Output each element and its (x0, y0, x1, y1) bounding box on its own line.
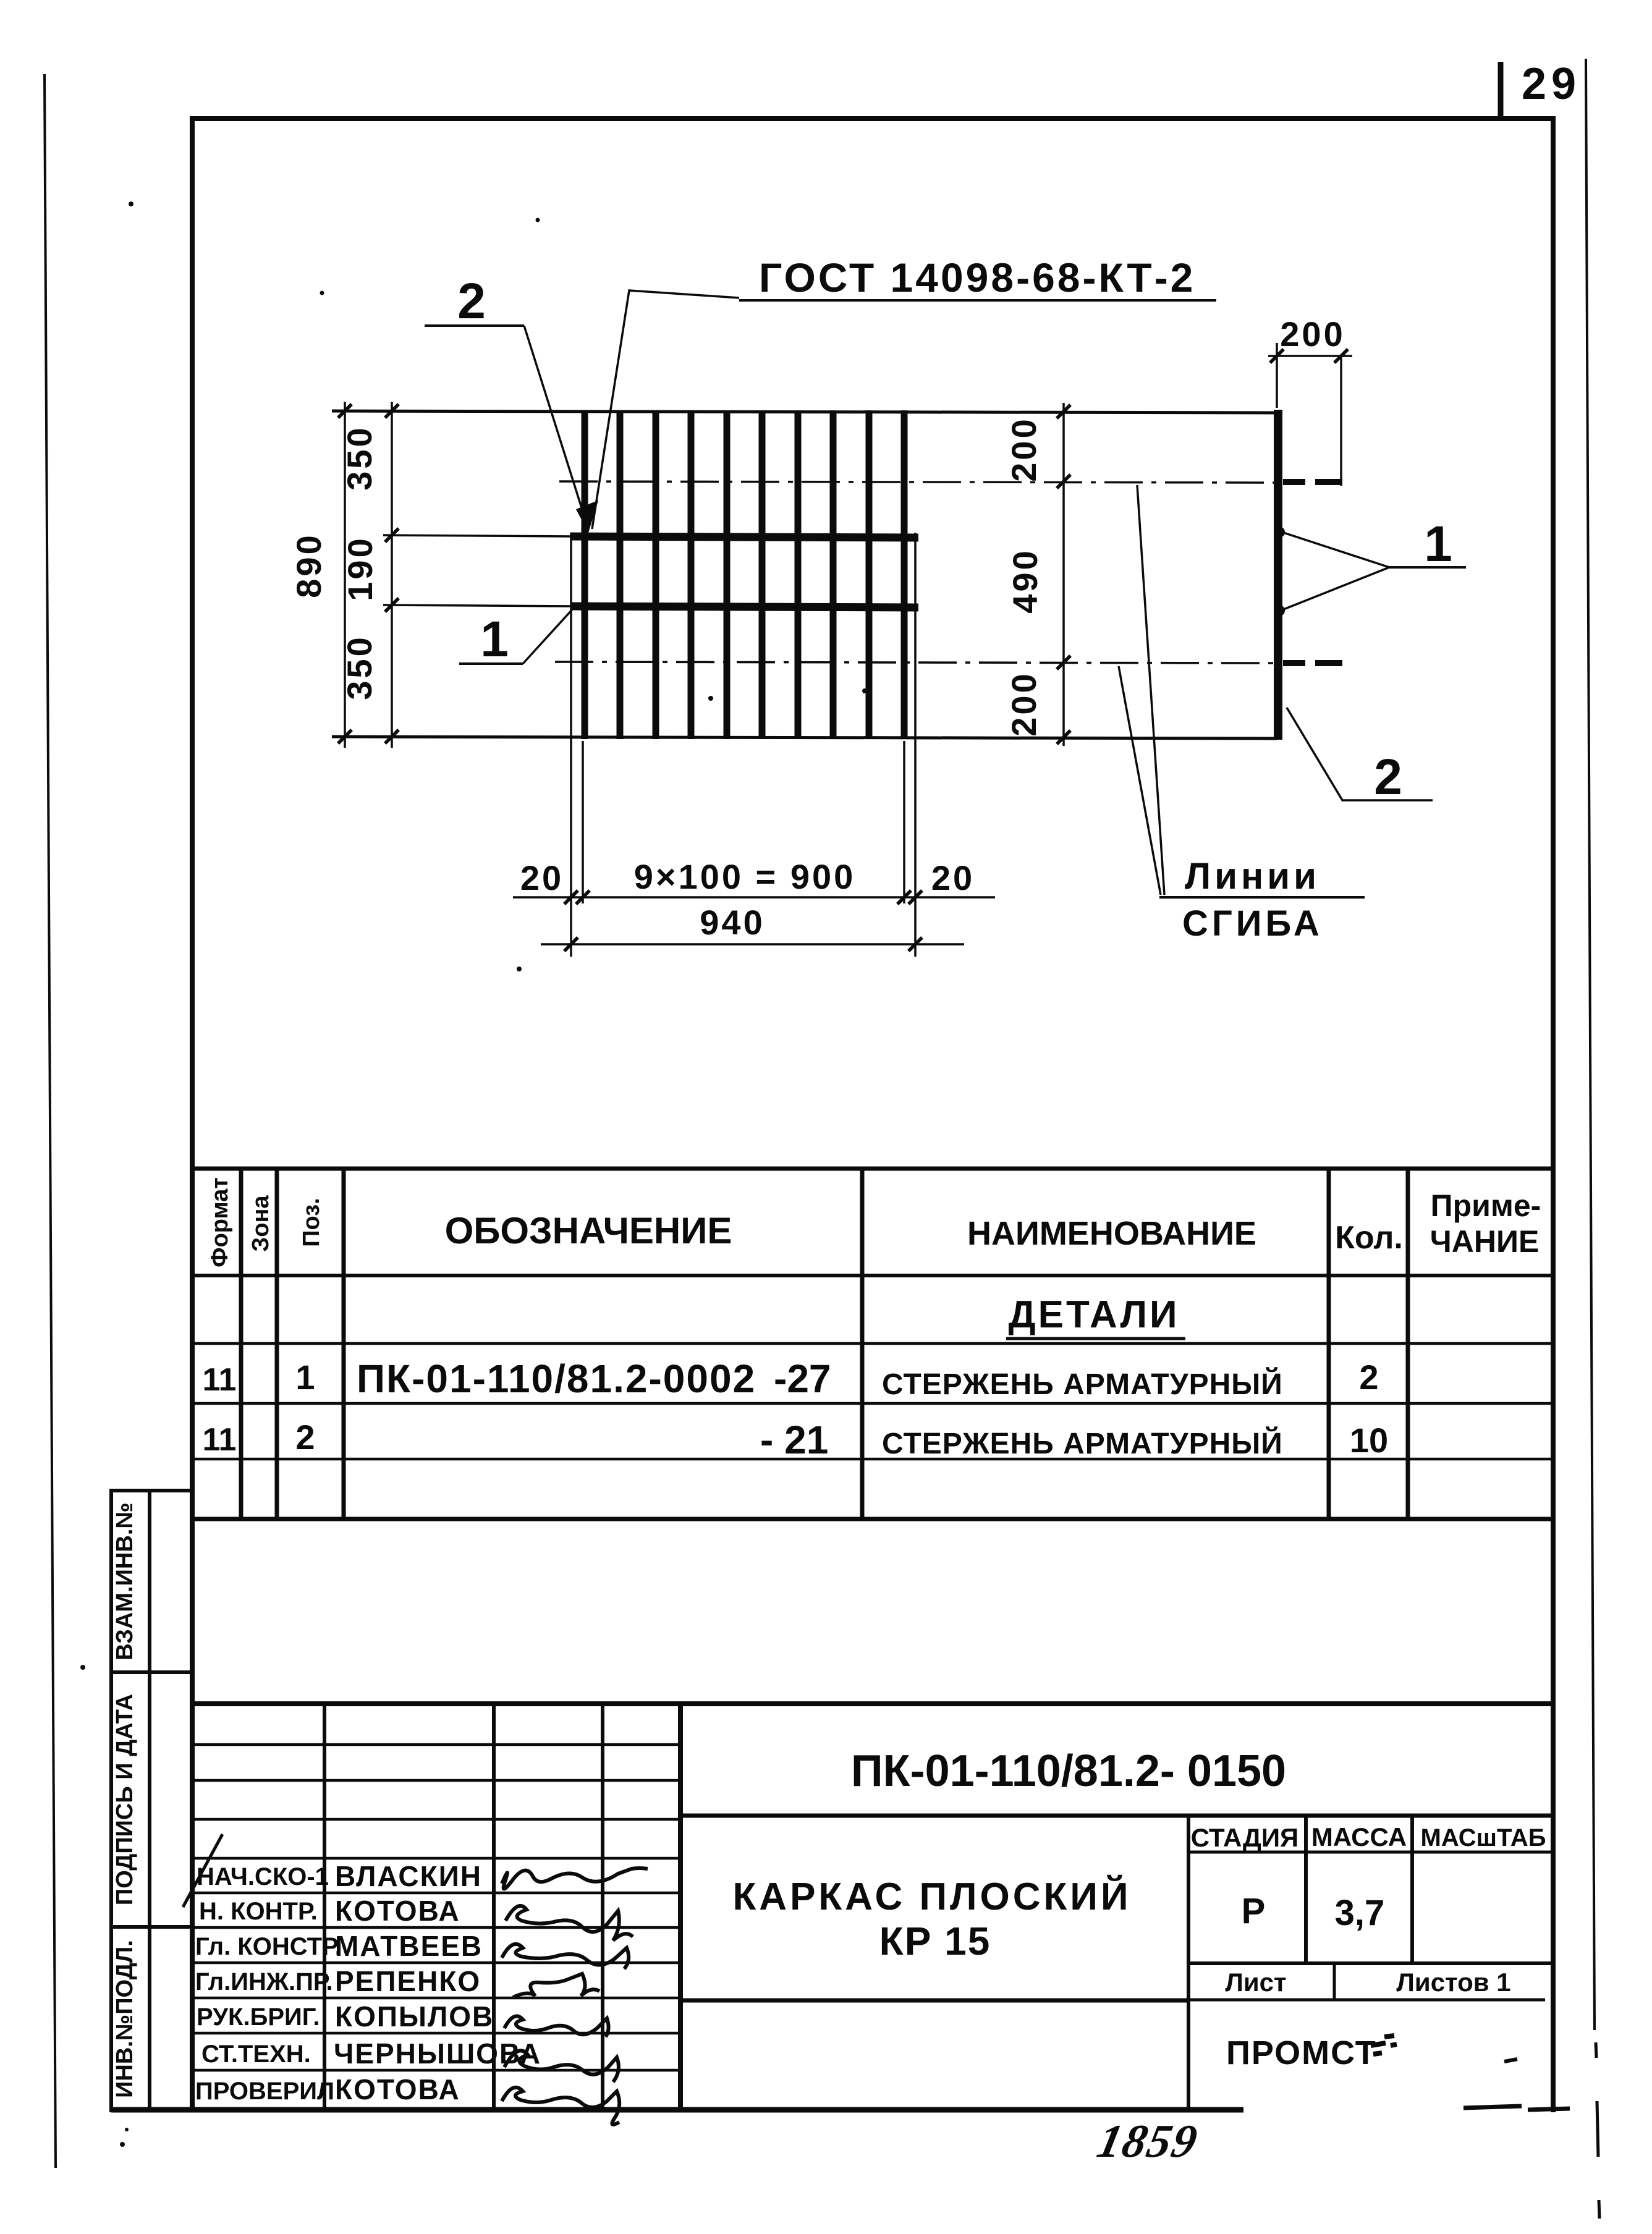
svg-text:2: 2 (1374, 749, 1402, 805)
GOST label underline (739, 299, 1216, 302)
extension line last rod down (903, 741, 905, 903)
column line poz (342, 1169, 346, 1519)
column line kol (1406, 1169, 1410, 1519)
stamp divider 2 (148, 1672, 151, 1927)
svg-text:350: 350 (340, 635, 379, 700)
svg-text:КОТОВА: КОТОВА (335, 1895, 460, 1927)
svg-text:1: 1 (295, 1358, 315, 1397)
dimension line 20 - 9x100=900 - 20 (513, 896, 995, 899)
svg-text:СТЕРЖЕНЬ АРМАТУРНЫЙ: СТЕРЖЕНЬ АРМАТУРНЫЙ (882, 1367, 1283, 1401)
title row j (192, 2069, 680, 2072)
right vertical rod pos 2 (side view of bent bar) (1274, 410, 1282, 740)
extension line bar2 level (383, 605, 574, 606)
svg-text:ПРОВЕРИЛ: ПРОВЕРИЛ (195, 2078, 334, 2105)
callout 1 right leader lower (1284, 567, 1389, 609)
svg-text:Зона: Зона (248, 1195, 274, 1252)
svg-text:2: 2 (295, 1418, 315, 1457)
table top line (192, 1167, 1554, 1171)
frame right border (1551, 116, 1556, 2112)
svg-text:ЧЕРНЫШОВА: ЧЕРНЫШОВА (334, 2037, 541, 2070)
stamp box podpis i data (111, 1672, 192, 1927)
extension line left end of rods (570, 533, 572, 957)
svg-text:КР 15: КР 15 (879, 1919, 991, 1963)
svg-text:29: 29 (1522, 59, 1581, 109)
signature squiggle 2 (506, 1906, 633, 1940)
svg-text:ПОДПИСЬ И ДАТА: ПОДПИСЬ И ДАТА (112, 1694, 138, 1905)
svg-text:Н. КОНТР.: Н. КОНТР. (199, 1898, 318, 1925)
doc number cell bottom (680, 1814, 1554, 1818)
left paper fold line (44, 74, 56, 2168)
svg-text:-27: -27 (774, 1356, 831, 1401)
svg-text:ОБОЗНАЧЕНИЕ: ОБОЗНАЧЕНИЕ (445, 1210, 732, 1251)
bold dash marks right of bar, lower bend (1283, 660, 1305, 666)
dimension line 890 (344, 402, 346, 748)
title row c (192, 1818, 680, 1821)
svg-text:2: 2 (457, 273, 486, 329)
bold dash marks right of bar, upper bend (1283, 479, 1305, 485)
frame top border (190, 116, 1556, 121)
dimension line 200 top right (1268, 355, 1352, 357)
signature squiggle 4 (513, 1974, 599, 1997)
svg-text:КОПЫЛОВ: КОПЫЛОВ (335, 2000, 494, 2033)
svg-text:СГИБА: СГИБА (1182, 903, 1323, 944)
table bottom line (192, 1517, 1554, 1521)
stamp divider 3 (148, 1927, 151, 2110)
signature squiggle 5 (504, 2016, 609, 2037)
signature squiggle 1 (502, 1868, 648, 1889)
svg-text:10: 10 (1350, 1421, 1388, 1460)
list divider (1333, 1963, 1336, 2000)
svg-text:11: 11 (203, 1362, 237, 1398)
svg-text:МАСшТАБ: МАСшТАБ (1421, 1824, 1546, 1851)
callout 1 left leader (523, 608, 574, 664)
svg-text:Приме-: Приме- (1431, 1188, 1541, 1223)
signature squiggle 7 (502, 2088, 619, 2125)
svg-text:ПК-01-110/81.2-0002: ПК-01-110/81.2-0002 (357, 1356, 756, 1401)
svg-text:9×100 = 900: 9×100 = 900 (634, 857, 856, 896)
frame bottom border (111, 2107, 1243, 2113)
svg-text:ПРОМСТ: ПРОМСТ (1226, 2034, 1377, 2071)
stadia col massa (1304, 1816, 1308, 1963)
svg-text:Линии: Линии (1185, 855, 1320, 897)
svg-text:СТ.ТЕХН.: СТ.ТЕХН. (201, 2041, 311, 2068)
stamp box inv n podl (111, 1927, 192, 2110)
svg-text:ВЛАСКИН: ВЛАСКИН (335, 1860, 482, 1892)
svg-text:ВЗАМ.ИНВ.№: ВЗАМ.ИНВ.№ (112, 1502, 138, 1661)
column line zona (275, 1169, 279, 1519)
svg-text:1: 1 (480, 611, 509, 667)
title row b (192, 1779, 680, 1782)
svg-text:ЧАНИЕ: ЧАНИЕ (1430, 1224, 1540, 1259)
svg-text:Гл.ИНЖ.ПР.: Гл.ИНЖ.ПР. (195, 1968, 333, 1995)
svg-text:3,7: 3,7 (1335, 1893, 1385, 1933)
title row i (192, 2032, 680, 2035)
svg-text:РУК.БРИГ.: РУК.БРИГ. (197, 2003, 320, 2031)
svg-text:Р: Р (1242, 1891, 1266, 1931)
stamp divider 1 (148, 1491, 151, 1672)
paper specks (80, 201, 867, 2147)
svg-text:МАТВЕЕВ: МАТВЕЕВ (335, 1930, 483, 1962)
frame bottom border broken dashes right (1464, 2106, 1522, 2108)
title block top line (192, 1701, 1554, 1706)
title row h (192, 1997, 680, 2000)
dimension line 940 (541, 943, 964, 946)
svg-text:МАССА: МАССА (1311, 1822, 1407, 1851)
svg-text:Листов 1: Листов 1 (1396, 1968, 1510, 1997)
svg-text:ИНВ.№ПОДЛ.: ИНВ.№ПОДЛ. (112, 1940, 138, 2098)
title col line 3 (601, 1704, 604, 2110)
callout 2 top leader (524, 326, 587, 525)
fold lines label underline/shelf (1159, 896, 1365, 899)
signature squiggle 6 (504, 2050, 619, 2082)
svg-text:20: 20 (931, 858, 975, 897)
callout 1 right leader upper (1284, 533, 1389, 567)
dimension tick slashes (338, 349, 1348, 951)
svg-text:КАРКАС ПЛОСКИЙ: КАРКАС ПЛОСКИЙ (732, 1875, 1131, 1918)
extension up from right rod (1276, 343, 1278, 408)
right dimension line 200-490-200 (1062, 403, 1065, 746)
org name smudged tail (1371, 2036, 1397, 2054)
svg-text:890: 890 (289, 533, 328, 598)
right paper edge broken segments bottom (1596, 2042, 1599, 2219)
list row bottom (1188, 1999, 1545, 2002)
stamp box vzam inv (111, 1491, 192, 1672)
svg-text:Поз.: Поз. (299, 1198, 324, 1246)
svg-text:2: 2 (1359, 1358, 1378, 1397)
svg-text:Гл. КОНСТР.: Гл. КОНСТР. (195, 1933, 342, 1960)
callout 2 bottom right leader (1287, 708, 1433, 800)
title col line 4 main divider (678, 1704, 683, 2110)
name cell bottom (680, 1999, 1188, 2003)
svg-text:Формат: Формат (207, 1177, 233, 1267)
svg-text:Лист: Лист (1225, 1968, 1286, 1997)
stadia values bottom (1188, 1961, 1554, 1965)
svg-text:СТЕРЖЕНЬ АРМАТУРНЫЙ: СТЕРЖЕНЬ АРМАТУРНЫЙ (882, 1426, 1283, 1460)
svg-text:ПК-01-110/81.2- 0150: ПК-01-110/81.2- 0150 (851, 1746, 1286, 1796)
title col line 2 (492, 1704, 496, 2110)
row Detali underline (1006, 1337, 1185, 1340)
horizontal rebar rod pos 1 (lower) (570, 606, 918, 607)
horizontal rebar rod pos 1 (upper) (570, 536, 918, 538)
callout 2 top shelf (425, 324, 524, 327)
callout 1 right shelf (1389, 566, 1466, 569)
fold lines leader upper (1137, 485, 1164, 895)
stray mark near org name (1504, 2059, 1517, 2062)
svg-text:1: 1 (1424, 516, 1452, 572)
svg-text:11: 11 (203, 1422, 237, 1458)
svg-text:СТАДИЯ: СТАДИЯ (1191, 1823, 1298, 1852)
column line format (239, 1169, 244, 1519)
svg-text:20: 20 (520, 858, 564, 897)
signature squiggle 3 (502, 1944, 629, 1969)
title row g (192, 1961, 680, 1965)
svg-text:940: 940 (700, 903, 765, 942)
svg-text:200: 200 (1004, 671, 1043, 736)
stadia table left (1187, 1816, 1190, 2110)
svg-text:ДЕТАЛИ: ДЕТАЛИ (1008, 1293, 1179, 1336)
table row line 2 (192, 1402, 1554, 1405)
hand slash before nach sko (183, 1834, 222, 1907)
svg-text:ГОСТ 14098-68-КТ-2: ГОСТ 14098-68-КТ-2 (759, 255, 1195, 300)
title row d (192, 1857, 680, 1860)
svg-text:190: 190 (341, 536, 379, 601)
title col line 1 (323, 1704, 326, 2110)
stadia header bottom (1188, 1851, 1554, 1854)
svg-text:200: 200 (1004, 417, 1043, 481)
extension line first rod down (582, 741, 584, 903)
cage bottom edge (332, 737, 1277, 738)
table header bottom line (192, 1274, 1554, 1277)
page number tick (1498, 62, 1504, 119)
table row line 1 (192, 1342, 1554, 1345)
extension line bar1 level (383, 535, 574, 536)
column line oboznachenie (860, 1169, 865, 1519)
title row a (192, 1743, 680, 1746)
svg-text:1859: 1859 (1093, 2115, 1203, 2167)
title row e (192, 1892, 680, 1895)
svg-text:200: 200 (1280, 315, 1345, 353)
svg-text:НАЧ.СКО-1: НАЧ.СКО-1 (197, 1863, 329, 1890)
callout 1 left shelf (459, 662, 523, 665)
GOST leader line to weld point (592, 290, 739, 529)
svg-text:КОТОВА: КОТОВА (335, 2073, 460, 2105)
title row f (192, 1926, 680, 1929)
table row line 3 (192, 1458, 1554, 1461)
cage top edge (332, 411, 1277, 413)
lower bend line (dash-dot) (555, 662, 1274, 663)
svg-text:- 21: - 21 (760, 1418, 828, 1462)
svg-text:490: 490 (1006, 548, 1044, 613)
svg-text:350: 350 (340, 425, 379, 490)
bend point dot lower (1274, 605, 1285, 616)
frame left border (190, 116, 195, 2112)
GOST leader arrowhead (580, 501, 598, 533)
vertical rebar rods pos 2 (10x) (585, 410, 904, 739)
svg-text:НАИМЕНОВАНИЕ: НАИМЕНОВАНИЕ (967, 1215, 1256, 1252)
extension line right end of rods (914, 533, 917, 957)
callout 2 top arrowhead (576, 502, 595, 533)
fold lines leader lower (1119, 666, 1161, 895)
dimension line 350-190-350 (391, 402, 393, 748)
right paper edge line (1586, 59, 1595, 2030)
column line naimenovanie (1327, 1169, 1331, 1519)
svg-text:РЕПЕНКО: РЕПЕНКО (335, 1965, 481, 1997)
svg-text:Кол.: Кол. (1335, 1220, 1403, 1256)
stadia col masshtab (1410, 1816, 1414, 1963)
upper bend line (dash-dot) (559, 481, 1274, 483)
extension down right of 200 dim (1340, 356, 1342, 486)
bend point dot upper (1274, 527, 1285, 538)
